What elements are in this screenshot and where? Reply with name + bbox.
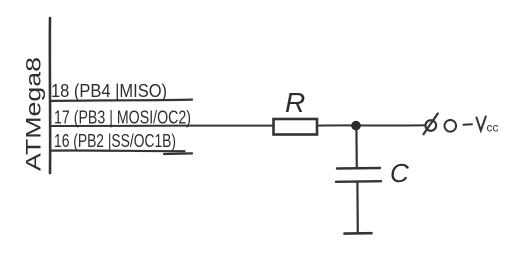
ground bar	[345, 232, 372, 235]
pin 18 line	[50, 100, 192, 101]
junction node dot	[351, 121, 361, 131]
terminal circle with slash (output)	[426, 120, 437, 131]
IC ATMega8 left-edge line	[49, 18, 52, 173]
dash of 0-Vcc	[464, 123, 473, 126]
pin 17 wire to resistor	[50, 125, 274, 127]
wire resistor to terminal	[317, 124, 426, 126]
wire capacitor to bottom bar	[356, 182, 359, 234]
pin 16 line overlap stroke	[164, 152, 192, 155]
svg-text:C: C	[390, 158, 409, 188]
svg-text:17 (PB3 | MOSI/OC2): 17 (PB3 | MOSI/OC2)	[54, 107, 191, 128]
svg-text:16 (PB2 |SS/OC1B): 16 (PB2 |SS/OC1B)	[54, 130, 176, 151]
svg-text:cc: cc	[487, 121, 499, 135]
wire junction down to capacitor	[355, 127, 358, 168]
capacitor C1 bottom plate	[336, 180, 381, 183]
pin 16 line	[50, 149, 185, 152]
svg-text:18 (PB4 |MISO): 18 (PB4 |MISO)	[51, 80, 167, 101]
capacitor C1 top plate	[337, 167, 380, 170]
resistor R1 body	[274, 119, 318, 135]
svg-text:ATMega8: ATMega8	[23, 57, 46, 171]
svg-text:R: R	[285, 87, 305, 118]
letter O of 0-Vcc	[445, 120, 457, 132]
letter V of Vcc	[477, 117, 486, 131]
